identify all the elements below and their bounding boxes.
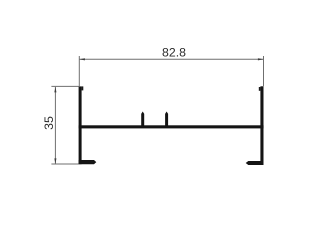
extension line right (82.8) (263, 56, 265, 86)
extension line left (82.8) (78, 56, 80, 86)
profile right foot (246, 161, 264, 165)
svg-text:82.8: 82.8 (162, 46, 186, 60)
arrow bottom of 35 dimension (54, 158, 56, 164)
profile left flange top lip (82, 86, 84, 90)
profile snap fin 2 (165, 112, 168, 127)
arrow top of 35 dimension (54, 87, 56, 93)
arrow right of 82.8 dimension (258, 58, 264, 60)
profile right flange (260, 86, 263, 165)
dimension line 35 (54, 87, 56, 164)
dimension text 35 (42, 116, 56, 130)
extension line bottom (35) (51, 163, 78, 165)
profile left flange (79, 86, 82, 164)
profile snap fin 1 (141, 112, 144, 127)
profile right flange top lip (259, 87, 261, 91)
svg-text:35: 35 (42, 116, 56, 130)
profile left foot (79, 160, 97, 164)
extension line top (35) (51, 85, 78, 87)
dimension text 82.8 (162, 46, 186, 60)
profile web (horizontal bar) (79, 125, 264, 128)
arrow left of 82.8 dimension (79, 58, 85, 60)
dimension line 82.8 (79, 58, 263, 60)
